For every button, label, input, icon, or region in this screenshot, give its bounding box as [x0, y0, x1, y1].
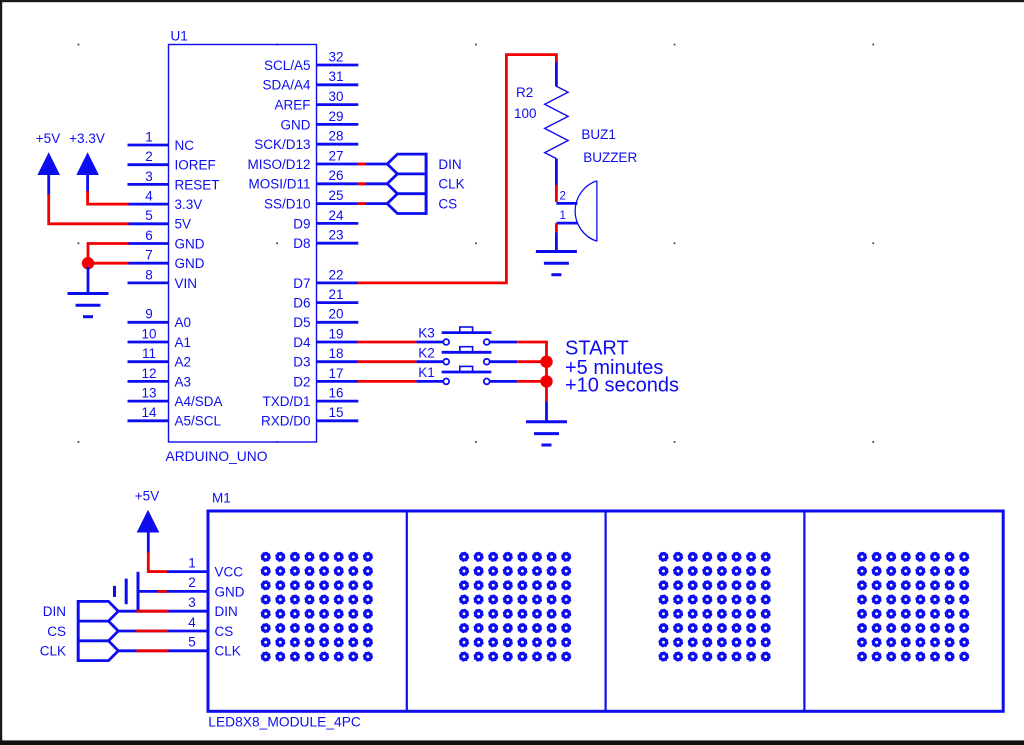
U1 pin 12 (A3) [128, 366, 192, 390]
svg-text:3.3V: 3.3V [175, 197, 203, 212]
svg-text:25: 25 [328, 188, 343, 203]
svg-text:4: 4 [188, 615, 196, 630]
svg-text:DIN: DIN [215, 604, 238, 619]
net tag CS (module) [47, 621, 118, 641]
svg-text:8: 8 [145, 267, 153, 282]
svg-text:19: 19 [328, 326, 343, 341]
junction dot pins 6/7 ground net [82, 257, 94, 269]
tag bus vertical (module tags) [77, 600, 80, 662]
U1 pin 25 (SS/D10) [264, 188, 358, 212]
wire D-pin to K2 (red) [358, 360, 417, 363]
svg-text:SCL/A5: SCL/A5 [264, 58, 311, 73]
M1 pin 5 (CLK) [188, 635, 241, 659]
svg-text:30: 30 [328, 89, 343, 104]
U1 pin 24 (D9) [293, 208, 358, 232]
svg-text:NC: NC [175, 138, 195, 153]
svg-text:A2: A2 [175, 355, 192, 370]
M1 pin 1 (VCC) [188, 555, 243, 579]
module M1 designator label [212, 491, 231, 506]
U1 pin 29 (GND) [281, 109, 359, 133]
svg-text:AREF: AREF [274, 98, 310, 113]
node label START [565, 338, 629, 360]
M1 value label LED8X8_MODULE_4PC [208, 714, 361, 729]
U1 pin 4 (3.3V) [128, 189, 203, 213]
svg-text:13: 13 [141, 386, 156, 401]
svg-text:BUZZER: BUZZER [583, 150, 637, 165]
ground symbol (U1 left) [68, 294, 109, 317]
svg-text:22: 22 [328, 267, 343, 282]
R2 value label 100 [514, 106, 537, 121]
U1 pin 19 (D4) [293, 326, 358, 350]
svg-text:20: 20 [328, 307, 343, 322]
U1 pin 10 (A1) [128, 326, 192, 350]
push button K2 [416, 345, 517, 364]
wire M1 pin 4 CS (red segment) [118, 630, 208, 633]
wire K1 to start net (red) [517, 380, 546, 383]
svg-text:14: 14 [141, 405, 157, 420]
U1 pin 1 (NC) [128, 129, 195, 153]
svg-text:29: 29 [328, 109, 343, 124]
svg-text:15: 15 [328, 405, 343, 420]
svg-text:D5: D5 [293, 315, 310, 330]
svg-text:A0: A0 [175, 315, 192, 330]
svg-text:10: 10 [141, 326, 156, 341]
M1 section divider 2 [604, 511, 606, 711]
svg-text:CLK: CLK [215, 644, 241, 659]
U1 pin 7 (GND) [128, 248, 205, 272]
svg-text:CS: CS [215, 624, 234, 639]
wire R2 top lead [555, 62, 558, 87]
IC U1 designator label [171, 29, 188, 44]
power +5V symbol (top left) [36, 131, 60, 196]
svg-text:1: 1 [188, 555, 196, 570]
U1 pin 3 (RESET) [128, 169, 220, 193]
svg-text:4: 4 [145, 189, 153, 204]
buzzer BUZ1 pin 2 [556, 191, 577, 204]
LED matrix section 3 [659, 552, 770, 660]
svg-text:M1: M1 [212, 491, 231, 506]
svg-text:5: 5 [188, 635, 196, 650]
LED matrix section 1 [261, 552, 372, 660]
wire pin 6 GND (red) [88, 244, 129, 264]
svg-text:24: 24 [328, 208, 344, 223]
junction dot K1 node [540, 375, 552, 387]
U1 pin 14 (A5/SCL) [128, 405, 222, 429]
svg-text:1: 1 [145, 129, 153, 144]
wire K2 to start net (red) [517, 360, 546, 363]
wire D-pin to K3 (red) [358, 341, 417, 344]
svg-text:RESET: RESET [175, 177, 220, 192]
wire buzzer pin 1 to ground (red+blue) [555, 223, 558, 250]
BUZ1 designator label [581, 127, 616, 142]
svg-text:DIN: DIN [43, 604, 66, 619]
wire R2 to buzzer pin 2 (red) [555, 185, 558, 202]
net tag DIN (module) [43, 601, 119, 621]
ground symbol (buzzer) [536, 252, 577, 275]
M1 pin 4 (CS) [188, 615, 233, 639]
svg-text:9: 9 [145, 307, 153, 322]
svg-text:TXD/D1: TXD/D1 [262, 394, 310, 409]
U1 value label ARDUINO_UNO [166, 449, 268, 464]
svg-text:100: 100 [514, 106, 537, 121]
svg-text:17: 17 [328, 366, 343, 381]
LED matrix section 2 [460, 552, 571, 660]
svg-text:6: 6 [145, 228, 153, 243]
svg-text:+5V: +5V [135, 489, 159, 504]
tag bus vertical (top tags) [425, 153, 428, 215]
wire +5V to pin 5 (red) [49, 195, 129, 224]
svg-text:2: 2 [145, 149, 153, 164]
svg-text:11: 11 [142, 346, 156, 361]
buzzer BUZ1 horn outline [575, 181, 597, 242]
svg-text:START: START [565, 338, 629, 360]
U1 pin 16 (TXD/D1) [262, 386, 358, 410]
svg-text:GND: GND [175, 256, 205, 271]
svg-text:16: 16 [328, 386, 343, 401]
wire M1 pin 3 DIN (red segment) [118, 610, 208, 613]
wire M1 pin 1 VCC [148, 570, 208, 573]
net tag CLK (to pin 26) [387, 174, 464, 194]
svg-text:D4: D4 [293, 335, 311, 350]
svg-text:27: 27 [328, 148, 343, 163]
U1 pin 32 (SCL/A5) [264, 49, 358, 73]
U1 pin 31 (SDA/A4) [262, 69, 358, 93]
svg-text:A5/SCL: A5/SCL [175, 414, 222, 429]
svg-text:CLK: CLK [40, 644, 66, 659]
svg-text:GND: GND [281, 117, 311, 132]
U1 pin 22 (D7) [293, 267, 358, 291]
U1 pin 26 (MOSI/D11) [248, 168, 358, 192]
wire D7 pin 22 to R2 (red) [358, 55, 557, 283]
svg-text:CLK: CLK [438, 177, 464, 192]
svg-text:26: 26 [328, 168, 343, 183]
wire D-pin to K1 (red) [358, 380, 417, 383]
M1 pin 2 (GND) [188, 575, 245, 599]
svg-text:3: 3 [188, 595, 196, 610]
U1 pin 23 (D8) [293, 228, 358, 252]
svg-text:GND: GND [175, 236, 205, 251]
svg-text:K2: K2 [418, 345, 435, 360]
resistor R2 [545, 86, 568, 158]
svg-text:VCC: VCC [215, 565, 244, 580]
svg-text:RXD/D0: RXD/D0 [261, 414, 311, 429]
svg-text:18: 18 [328, 346, 343, 361]
IC U1 ARDUINO_UNO body [169, 45, 317, 443]
svg-text:D2: D2 [293, 374, 310, 389]
svg-text:1: 1 [560, 210, 566, 222]
node label +5 minutes [565, 357, 663, 379]
svg-text:+5V: +5V [36, 131, 60, 146]
svg-text:MOSI/D11: MOSI/D11 [248, 177, 310, 192]
wire pin 25 to CS tag (red segment) [357, 202, 387, 205]
svg-text:23: 23 [328, 228, 343, 243]
svg-text:DIN: DIN [438, 157, 461, 172]
U1 pin 11 (A2) [128, 346, 192, 370]
wire junction to ground [87, 267, 90, 293]
svg-text:U1: U1 [171, 29, 188, 44]
svg-text:LED8X8_MODULE_4PC: LED8X8_MODULE_4PC [208, 714, 361, 729]
U1 pin 18 (D3) [293, 346, 358, 370]
push button K3 [416, 326, 517, 345]
U1 pin 28 (SCK/D13) [254, 129, 358, 153]
junction dot K2 node [540, 356, 552, 368]
svg-text:K3: K3 [418, 326, 435, 341]
svg-text:A4/SDA: A4/SDA [175, 394, 223, 409]
U1 pin 13 (A4/SDA) [128, 386, 223, 410]
M1 pin 3 (DIN) [188, 595, 238, 619]
wire buttons to ground [545, 402, 548, 421]
U1 pin 17 (D2) [293, 366, 358, 390]
wire R2 bottom lead [555, 159, 558, 186]
svg-text:31: 31 [328, 69, 343, 84]
node label +10 seconds [565, 375, 679, 397]
BUZ1 value label BUZZER [583, 150, 637, 165]
LED matrix section 4 [858, 552, 969, 660]
M1 section divider 3 [803, 511, 805, 711]
wire pin 26 to CLK tag (red segment) [357, 182, 387, 185]
buzzer BUZ1 pin 1 [556, 210, 577, 223]
svg-text:CS: CS [47, 624, 66, 639]
svg-text:D3: D3 [293, 355, 310, 370]
svg-text:R2: R2 [516, 85, 533, 100]
U1 pin 20 (D5) [293, 307, 358, 331]
net tag CLK (module) [40, 641, 119, 661]
U1 pin 15 (RXD/D0) [261, 405, 358, 429]
svg-text:A1: A1 [175, 335, 192, 350]
svg-text:A3: A3 [175, 374, 192, 389]
svg-text:32: 32 [328, 49, 343, 64]
wire +5V to M1 VCC (red) [148, 552, 167, 571]
wire start net vertical (red) [545, 362, 548, 402]
svg-text:SDA/A4: SDA/A4 [262, 78, 311, 93]
push button K1 [416, 365, 517, 384]
svg-text:D7: D7 [293, 276, 310, 291]
LED module M1 body [208, 511, 1003, 711]
svg-text:D6: D6 [293, 296, 310, 311]
U1 pin 6 (GND) [128, 228, 205, 252]
ground symbol (buttons) [526, 422, 567, 445]
svg-text:28: 28 [328, 129, 343, 144]
U1 pin 9 (A0) [128, 307, 192, 331]
wire M1 pin 5 CLK (red segment) [118, 649, 208, 652]
svg-text:VIN: VIN [175, 276, 198, 291]
svg-text:MISO/D12: MISO/D12 [247, 157, 310, 172]
U1 pin 5 (5V) [128, 208, 192, 232]
net tag DIN (to pin 27) [387, 154, 461, 174]
svg-text:+3.3V: +3.3V [69, 131, 105, 146]
svg-text:SCK/D13: SCK/D13 [254, 137, 310, 152]
ground symbol (module, rotated) [115, 572, 139, 611]
svg-text:2: 2 [188, 575, 196, 590]
svg-text:CS: CS [438, 197, 457, 212]
svg-text:+10 seconds: +10 seconds [565, 375, 679, 397]
U1 pin 2 (IOREF) [128, 149, 216, 173]
svg-text:IOREF: IOREF [175, 158, 216, 173]
svg-text:K1: K1 [418, 365, 435, 380]
svg-text:GND: GND [215, 584, 245, 599]
wire pin 7 GND (red) [88, 262, 129, 265]
svg-text:2: 2 [560, 191, 566, 203]
U1 pin 21 (D6) [293, 287, 358, 311]
U1 pin 8 (VIN) [128, 267, 198, 291]
wire pin 27 to DIN tag (red segment) [357, 163, 387, 166]
svg-text:5: 5 [145, 208, 153, 223]
svg-text:5V: 5V [175, 217, 192, 232]
M1 section divider 1 [406, 511, 408, 711]
power +5V symbol (module) [135, 489, 160, 554]
wire +3.3V to pin 4 (red) [88, 191, 129, 204]
svg-text:D9: D9 [293, 216, 310, 231]
svg-text:21: 21 [328, 287, 343, 302]
svg-text:BUZ1: BUZ1 [581, 127, 616, 142]
svg-text:SS/D10: SS/D10 [264, 197, 311, 212]
R2 designator label [516, 85, 533, 100]
svg-text:12: 12 [141, 366, 156, 381]
svg-text:3: 3 [145, 169, 153, 184]
power +3.3V symbol [69, 131, 105, 192]
wire K3 to start net (red) [517, 342, 546, 362]
svg-text:7: 7 [145, 248, 153, 263]
net tag CS (to pin 25) [387, 194, 457, 214]
svg-text:D8: D8 [293, 236, 310, 251]
U1 pin 30 (AREF) [274, 89, 358, 113]
wire M1 pin 2 GND [138, 590, 208, 593]
svg-text:ARDUINO_UNO: ARDUINO_UNO [166, 449, 268, 464]
U1 pin 27 (MISO/D12) [247, 148, 358, 172]
